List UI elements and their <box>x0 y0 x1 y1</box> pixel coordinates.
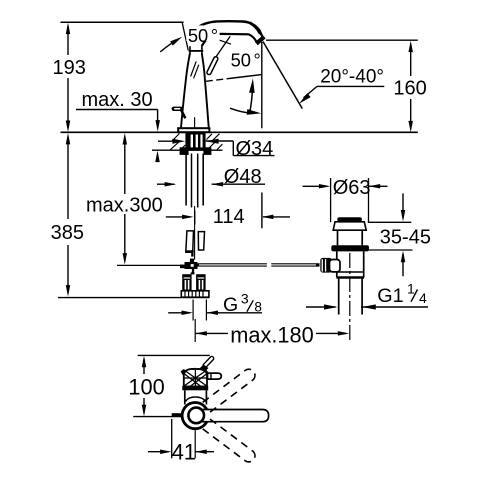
svg-text:41: 41 <box>172 439 196 464</box>
wire spout height reference line <box>266 39 418 41</box>
faucet spout outer curve <box>196 21 263 38</box>
svg-text:50°: 50° <box>188 25 218 46</box>
body reflection dashes <box>191 62 197 77</box>
svg-text:20°-40°: 20°-40° <box>320 66 384 87</box>
wire spout tip vertical line <box>261 42 263 128</box>
svg-text:max.180: max.180 <box>230 322 314 347</box>
svg-text:G: G <box>223 294 238 316</box>
svg-text:114: 114 <box>213 206 245 228</box>
angle arc vertical <box>250 90 253 112</box>
rod clamp <box>180 259 198 275</box>
svg-text:Ø34: Ø34 <box>236 138 274 160</box>
top view dashed swivel down <box>203 419 255 462</box>
handle base band <box>182 386 208 391</box>
drain tailpipe <box>338 279 340 315</box>
svg-text:Ø63: Ø63 <box>333 177 371 199</box>
dimension 193 <box>53 23 86 132</box>
svg-text:4: 4 <box>419 290 427 306</box>
faucet spout inner curve <box>202 34 257 46</box>
threaded shank dark <box>180 133 212 155</box>
dimension G3/8 <box>168 290 262 320</box>
dimension max.180 <box>195 319 349 347</box>
svg-text:8: 8 <box>254 299 262 314</box>
supply hose left <box>186 231 194 252</box>
dimension max.300 <box>86 133 163 265</box>
wire lever axis extension <box>216 36 231 57</box>
svg-text:100: 100 <box>128 375 164 400</box>
text mask <box>186 25 219 41</box>
svg-text:G1: G1 <box>377 285 403 307</box>
top view side knob <box>208 373 222 379</box>
top view body <box>184 390 186 404</box>
label 20deg-40deg <box>297 66 384 105</box>
svg-text:max.300: max.300 <box>86 195 163 217</box>
dimension G1 1/4 <box>306 281 428 310</box>
drain pop-up plug <box>333 217 366 230</box>
lever root <box>198 365 209 373</box>
svg-text:max. 30: max. 30 <box>82 89 153 111</box>
drain: dimension Ø63 <box>303 177 388 222</box>
G3/8 connector left <box>182 274 191 292</box>
pop-up horizontal rod <box>117 264 185 266</box>
dimension Ø48 <box>157 166 265 188</box>
drain pivot knob <box>320 258 332 273</box>
wire tilted vertical reference line <box>182 23 188 50</box>
wire 385 bottom reference line <box>58 297 209 299</box>
dimension 41 <box>148 419 214 464</box>
svg-text:160: 160 <box>393 78 426 100</box>
wire top reference line <box>61 21 184 23</box>
spout elbow <box>250 23 261 34</box>
mounting nut below deck <box>180 147 189 155</box>
drain neck <box>337 230 339 245</box>
faucet center line lower <box>194 206 196 260</box>
pop-up knob side <box>172 107 186 119</box>
svg-text:35-45: 35-45 <box>380 226 431 248</box>
spout tip face <box>256 37 264 44</box>
top view pop-up tab <box>172 413 182 417</box>
leader from 50deg <box>213 38 231 44</box>
svg-text:385: 385 <box>51 222 84 244</box>
top view hub circle <box>182 403 208 429</box>
top view handle dome <box>181 369 209 391</box>
svg-text:Ø48: Ø48 <box>224 166 262 188</box>
svg-text:3: 3 <box>241 290 249 306</box>
angle arc horizontal <box>230 108 251 113</box>
dimension 114 <box>166 193 290 229</box>
supply hose right <box>198 232 204 250</box>
faucet lever <box>209 59 216 73</box>
wire countertop bottom line <box>152 149 223 151</box>
svg-text:193: 193 <box>53 57 86 79</box>
drain flange <box>331 245 369 251</box>
dimension 35-45 <box>368 193 431 276</box>
connector base plate <box>181 291 209 297</box>
countertop hatching <box>170 134 222 151</box>
dimension max. 30 <box>76 89 160 162</box>
top view handle lever up <box>205 358 212 365</box>
top view center line <box>194 429 196 458</box>
supply shank tubes <box>186 154 203 208</box>
G3/8 connector right <box>196 274 206 292</box>
svg-text:50°: 50° <box>231 49 261 70</box>
body top collar <box>189 50 204 52</box>
pop-up vertical rod <box>186 250 194 252</box>
wire lever axis dashed line <box>206 78 233 81</box>
drain body <box>336 251 338 277</box>
top view dashed swivel up <box>203 369 255 412</box>
center tick above base <box>194 117 196 128</box>
wire countertop surface line <box>61 131 418 133</box>
faucet body <box>181 54 190 128</box>
dimension 160 <box>393 41 426 133</box>
arrow to reference line <box>160 43 171 52</box>
drain center line <box>349 253 351 341</box>
dimension 385 <box>51 133 84 297</box>
wire spray trajectory line <box>263 42 302 109</box>
dimension Ø34 <box>158 138 275 160</box>
svg-text:1: 1 <box>407 281 415 297</box>
dimension 100 <box>128 355 209 416</box>
top view spout bar <box>202 410 269 422</box>
base flange <box>178 128 209 132</box>
